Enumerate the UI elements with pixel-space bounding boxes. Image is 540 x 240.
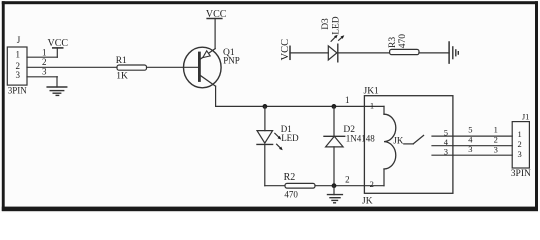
R3 body xyxy=(390,49,419,54)
wire D1 to R2 xyxy=(265,185,285,187)
svg-text:5: 5 xyxy=(468,125,472,135)
D3 emission arrow 1 xyxy=(331,37,335,41)
resistor R2 xyxy=(265,172,365,199)
wire J pin 2 to R1 and Q1 base xyxy=(27,57,199,67)
D1 emission arrow 1 xyxy=(275,133,279,137)
power VCC (top row, rotated) xyxy=(280,39,329,61)
svg-text:1: 1 xyxy=(16,50,21,60)
svg-text:3: 3 xyxy=(468,144,472,154)
Q1 base bar xyxy=(198,53,201,81)
svg-text:R3: R3 xyxy=(388,37,398,48)
ground (top right, rotated) xyxy=(449,42,458,63)
svg-text:470: 470 xyxy=(398,34,408,49)
wire R3 to ground xyxy=(419,52,449,54)
LED D1 xyxy=(257,104,299,186)
svg-text:J: J xyxy=(17,35,21,45)
svg-text:JK: JK xyxy=(362,197,373,207)
svg-text:5: 5 xyxy=(444,128,448,138)
svg-text:D3: D3 xyxy=(321,18,331,30)
junction dot D2 top net xyxy=(332,104,337,109)
connector J1 body xyxy=(512,122,529,168)
D2 triangle xyxy=(326,136,344,147)
wire ground drop xyxy=(56,77,58,87)
switch common stub xyxy=(404,143,413,145)
Q1 collector lead xyxy=(199,75,215,86)
connector J body xyxy=(7,47,27,85)
D3 emission arrow 2 xyxy=(339,37,342,40)
wire relay pin 3 to J1 pin 3 xyxy=(432,144,512,156)
svg-text:1N4148: 1N4148 xyxy=(346,133,375,143)
wire D2 anode down xyxy=(333,147,335,186)
LED D3 xyxy=(321,16,344,62)
ground (middle) xyxy=(328,186,343,203)
svg-text:1: 1 xyxy=(517,129,521,139)
wire to D2 cathode xyxy=(333,106,335,136)
transistor Q1 (PNP) xyxy=(184,47,240,88)
svg-text:3PIN: 3PIN xyxy=(511,169,531,179)
svg-text:3: 3 xyxy=(444,147,448,157)
VCC bar xyxy=(53,47,63,49)
relay coil pin 2 stub xyxy=(364,169,384,189)
D1 triangle xyxy=(257,131,273,144)
wire ground drop xyxy=(333,186,335,195)
relay coil xyxy=(384,114,396,169)
svg-text:JK: JK xyxy=(393,135,404,145)
svg-text:1: 1 xyxy=(42,48,47,58)
VCC bar xyxy=(289,46,291,59)
junction dot bottom net xyxy=(332,183,337,188)
Q1 envelope circle xyxy=(184,47,222,88)
D1 cathode bar xyxy=(257,143,273,145)
svg-text:R2: R2 xyxy=(284,172,296,183)
D3 triangle xyxy=(328,46,337,60)
svg-text:2: 2 xyxy=(517,139,521,149)
svg-text:2: 2 xyxy=(370,179,374,189)
Q1 emitter arrow (PNP, pointing to base) xyxy=(203,51,210,58)
wire to D1 anode xyxy=(264,106,266,130)
D1 emission arrow 2 xyxy=(277,144,281,148)
power VCC (above Q1) xyxy=(206,9,227,48)
relay switch JK xyxy=(393,135,423,145)
svg-text:VCC: VCC xyxy=(280,39,291,61)
D3 cathode bar xyxy=(337,44,339,62)
relay coil pin 1 stub xyxy=(364,101,384,115)
diode D2 1N4148 xyxy=(324,104,375,186)
svg-text:3PIN: 3PIN xyxy=(8,86,28,96)
resistor R3 xyxy=(388,34,419,55)
svg-text:3: 3 xyxy=(42,66,47,76)
wire Q1 collector down xyxy=(215,86,217,106)
relay JK1 xyxy=(362,87,453,207)
VCC bar xyxy=(207,18,222,20)
svg-text:470: 470 xyxy=(284,189,298,199)
wire J pin 1 to VCC xyxy=(27,48,57,58)
svg-text:4: 4 xyxy=(444,137,449,147)
svg-text:3: 3 xyxy=(517,149,521,159)
wire D1 cathode down xyxy=(264,144,266,185)
wire R2 to bottom net xyxy=(315,185,364,187)
svg-text:1: 1 xyxy=(494,125,498,135)
wire collector net to relay pin 1 xyxy=(216,105,365,107)
resistor R1 xyxy=(116,56,147,82)
svg-text:1: 1 xyxy=(370,101,374,111)
ground (left) xyxy=(47,77,66,96)
wire D3 cathode to R3 xyxy=(338,52,390,54)
svg-text:2: 2 xyxy=(494,134,498,144)
connector J1 (3PIN header) xyxy=(511,112,531,180)
junction dot D1 anode net xyxy=(263,104,268,109)
D2 cathode bar xyxy=(324,135,345,137)
svg-text:LED: LED xyxy=(332,16,342,35)
R2 body xyxy=(285,183,315,188)
connector J (3PIN header) xyxy=(7,35,27,96)
wire relay pin 5 to J1 pin 1 xyxy=(432,125,512,138)
svg-text:1K: 1K xyxy=(116,72,128,82)
svg-text:3: 3 xyxy=(494,144,498,154)
wire VCC drop xyxy=(56,48,58,57)
svg-text:J1: J1 xyxy=(522,112,530,122)
svg-text:PNP: PNP xyxy=(223,56,240,66)
svg-text:4: 4 xyxy=(468,134,473,144)
svg-text:2: 2 xyxy=(345,174,350,184)
svg-text:1: 1 xyxy=(345,95,350,105)
wire relay pin 4 to J1 pin 2 xyxy=(432,134,512,147)
wire J pin 3 to ground xyxy=(27,66,57,76)
Q1 emitter lead xyxy=(199,49,215,60)
R1 body xyxy=(117,65,147,70)
relay JK1 body xyxy=(364,96,453,194)
switch lever xyxy=(413,135,423,144)
svg-text:3: 3 xyxy=(16,70,21,80)
wire VCC to emitter xyxy=(214,19,216,49)
wire VCC to D3 anode xyxy=(290,52,328,54)
svg-text:LED: LED xyxy=(281,133,299,143)
power VCC (left) xyxy=(48,38,69,57)
